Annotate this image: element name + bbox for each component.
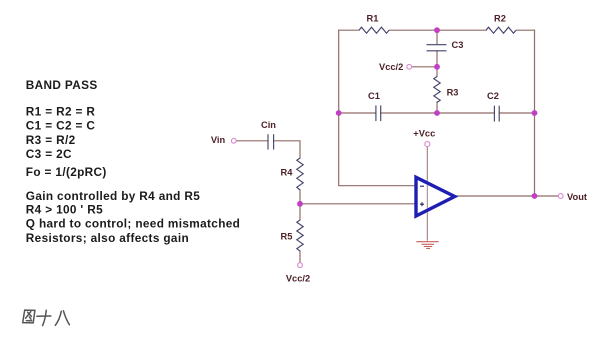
svg-text:Gain controlled by R4 and R5: Gain controlled by R4 and R5 [26,189,200,203]
svg-text:Vcc/2: Vcc/2 [379,62,403,72]
svg-text:C1: C1 [368,91,380,101]
svg-text:R4: R4 [281,168,294,178]
svg-text:R1: R1 [367,13,379,23]
svg-text:R3 = R/2: R3 = R/2 [26,133,76,147]
svg-text:Vin: Vin [211,135,226,145]
svg-text:R1 = R2 = R: R1 = R2 = R [26,105,96,119]
svg-text:Vcc/2: Vcc/2 [286,273,310,283]
svg-text:R5: R5 [281,231,293,241]
svg-text:+Vcc: +Vcc [413,129,435,139]
svg-text:R4 > 100 ' R5: R4 > 100 ' R5 [26,203,103,217]
svg-text:Fo = 1/(2pRC): Fo = 1/(2pRC) [26,165,107,179]
svg-text:C3 = 2C: C3 = 2C [26,147,72,161]
svg-text:Resistors; also affects gain: Resistors; also affects gain [26,231,189,245]
svg-text:R3: R3 [447,87,459,97]
svg-text:C3: C3 [452,40,464,50]
svg-text:Cin: Cin [261,120,276,130]
svg-text:C1 = C2 = C: C1 = C2 = C [26,119,96,133]
svg-text:R2: R2 [494,13,506,23]
svg-text:Q hard to control; need mismat: Q hard to control; need mismatched [26,217,240,231]
svg-text:Vout: Vout [567,192,587,202]
svg-text:BAND PASS: BAND PASS [26,78,98,92]
svg-text:C2: C2 [487,91,499,101]
